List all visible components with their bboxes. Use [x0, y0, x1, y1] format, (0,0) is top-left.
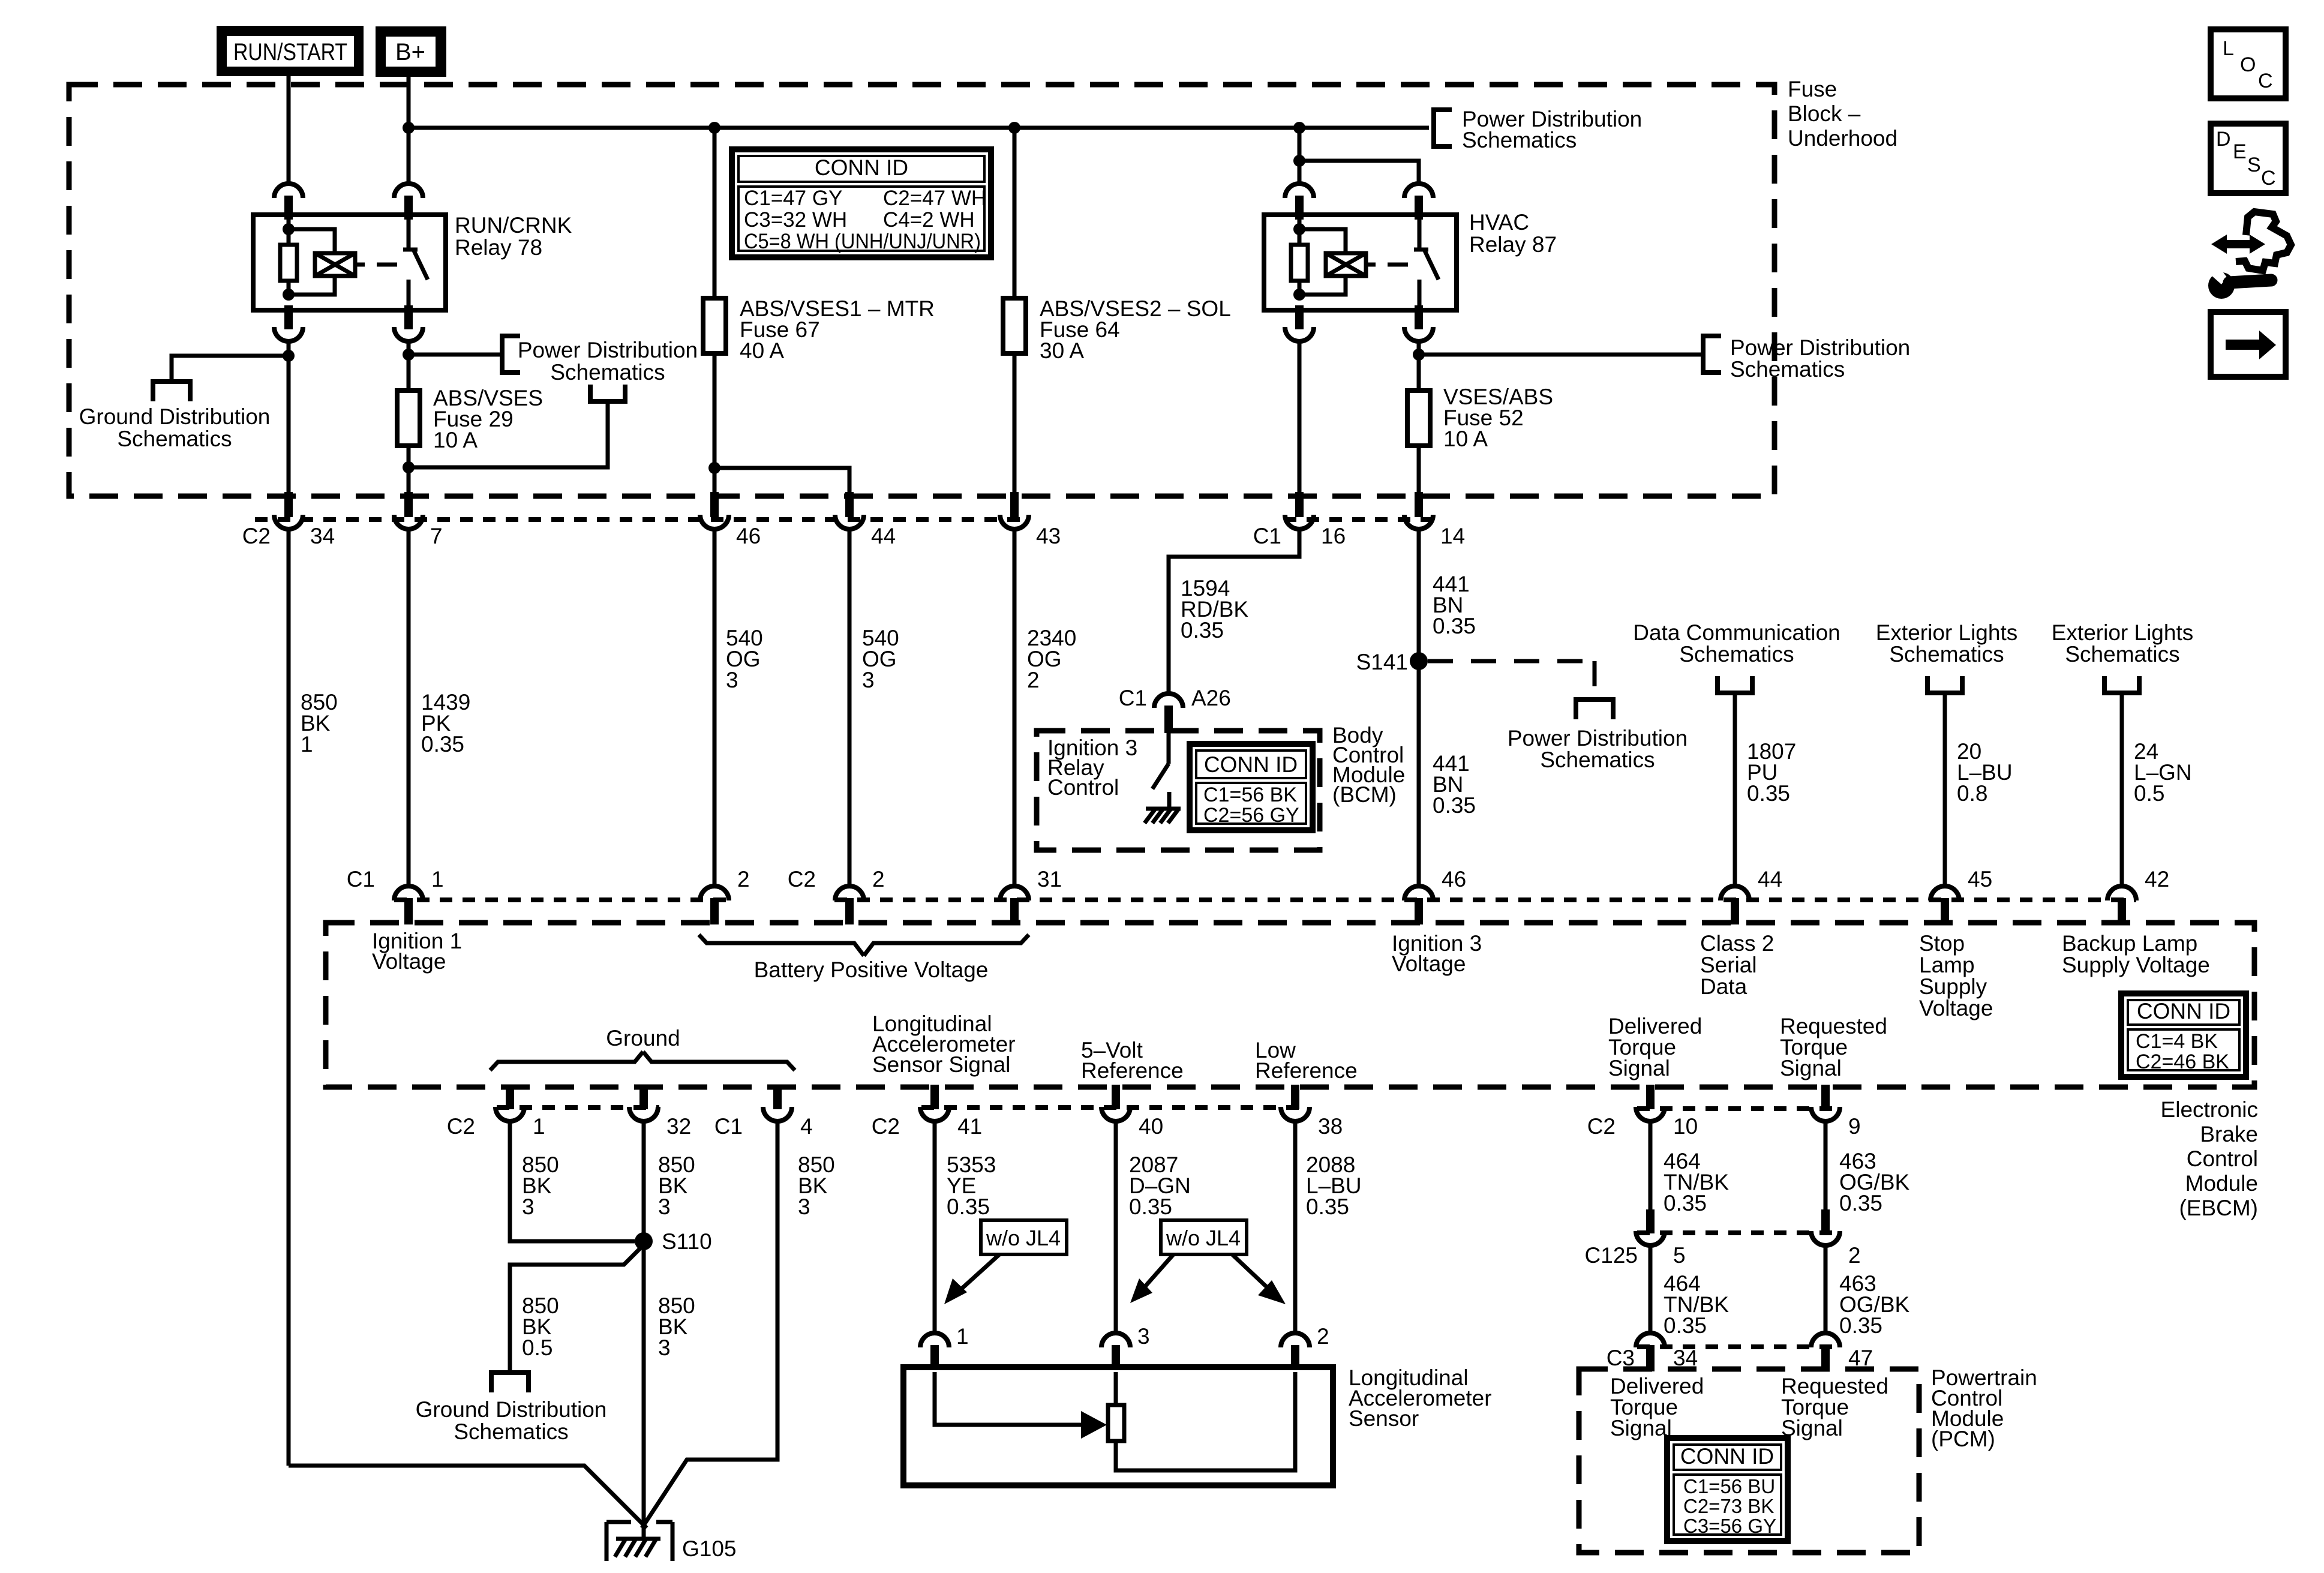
connector pin 16 fuse block — [1285, 515, 1314, 529]
svg-text:C125: C125 — [1585, 1243, 1638, 1268]
connector pin 1 accelerometer sensor — [920, 1333, 949, 1347]
callout box w/o JL4 right — [1161, 1220, 1247, 1254]
svg-text:Reference: Reference — [1081, 1058, 1184, 1083]
svg-text:Exterior Lights: Exterior Lights — [1876, 620, 2018, 645]
svg-text:HVAC: HVAC — [1469, 210, 1529, 235]
connector pin 38 EBCM bottom — [1281, 1107, 1310, 1121]
svg-text:0.35: 0.35 — [1664, 1191, 1707, 1215]
brace ground — [490, 1052, 643, 1070]
conn id table PCM — [1667, 1438, 1788, 1541]
svg-text:CONN ID: CONN ID — [1204, 752, 1298, 777]
connector row fuse block C1 dotted line — [1284, 517, 1434, 522]
svg-text:0.35: 0.35 — [1839, 1313, 1882, 1338]
svg-text:3: 3 — [862, 668, 875, 692]
arrow w/o JL4 right-left — [1141, 1254, 1173, 1291]
svg-text:0.35: 0.35 — [947, 1194, 990, 1219]
svg-text:C2=56 GY: C2=56 GY — [1203, 804, 1299, 827]
relay K78 RUN/CRNK coil circuit — [287, 215, 291, 295]
svg-text:16: 16 — [1321, 524, 1346, 548]
svg-text:Schematics: Schematics — [117, 427, 232, 451]
svg-text:Schematics: Schematics — [1679, 642, 1794, 667]
connector row EBCM bottom ground dotted — [497, 1105, 659, 1110]
svg-text:0.35: 0.35 — [1129, 1194, 1172, 1219]
svg-text:L: L — [2223, 37, 2234, 60]
svg-text:C: C — [2261, 167, 2276, 190]
svg-text:Data Communication: Data Communication — [1633, 620, 1840, 645]
connector C1 A26 BCM — [1154, 694, 1183, 708]
connector pin 46 EBCM top — [1404, 886, 1433, 900]
BCM relay driver switch — [1167, 733, 1171, 764]
svg-text:Signal: Signal — [1608, 1056, 1670, 1080]
svg-text:Schematics: Schematics — [1889, 642, 2004, 667]
icon hand with double arrow and wrench — [2236, 212, 2291, 271]
ground G105 — [606, 1520, 631, 1524]
relay K87 HVAC switch — [1418, 215, 1422, 250]
svg-text:Lamp: Lamp — [1919, 953, 1975, 977]
svg-text:10 A: 10 A — [433, 428, 478, 452]
svg-text:C2: C2 — [788, 867, 816, 891]
svg-text:4: 4 — [800, 1114, 813, 1139]
conn id table fuse block underhood — [732, 149, 991, 257]
wire 463 OG/BK upper — [1824, 1123, 1828, 1231]
relay K87 HVAC solenoid loop wire — [1299, 229, 1346, 253]
svg-text:7: 7 — [430, 524, 443, 548]
wire branch to power distribution reference right — [1419, 353, 1703, 357]
wire RUN/START to relay 78 coil — [287, 76, 291, 184]
reference bracket power distribution top — [1434, 110, 1452, 146]
svg-text:Power Distribution: Power Distribution — [1730, 335, 1910, 360]
svg-text:46: 46 — [736, 524, 761, 548]
svg-text:0.35: 0.35 — [1747, 781, 1790, 806]
svg-text:(EBCM): (EBCM) — [2179, 1196, 2258, 1220]
svg-text:Relay 78: Relay 78 — [455, 235, 542, 260]
reference bracket power distribution under text — [590, 385, 625, 401]
node fuse 64 feed — [1008, 122, 1020, 134]
svg-text:Power Distribution: Power Distribution — [1508, 726, 1688, 751]
svg-text:41: 41 — [957, 1114, 982, 1139]
svg-text:0.5: 0.5 — [2134, 781, 2164, 806]
connector pin 45 EBCM top — [1930, 886, 1959, 900]
connector pin 41 EBCM bottom — [920, 1107, 949, 1121]
wire fuse 67 feed — [713, 128, 717, 493]
wire B+ distribution bus — [409, 126, 1429, 130]
BCM dashed box — [1037, 731, 1320, 850]
svg-text:A26: A26 — [1191, 686, 1231, 710]
wire 2088 L-BU — [1293, 1121, 1298, 1333]
svg-text:0.35: 0.35 — [1433, 614, 1476, 638]
wire 850 BK 0.5 to ground distribution ref — [510, 1245, 644, 1373]
BCM internal ground — [1167, 792, 1172, 809]
svg-text:0.35: 0.35 — [1433, 793, 1476, 818]
svg-text:42: 42 — [2145, 867, 2169, 891]
svg-text:2: 2 — [1027, 668, 1040, 692]
icon LOC box — [2211, 29, 2286, 98]
svg-text:Underhood: Underhood — [1788, 126, 1897, 151]
wire branch fuse29 to power distribution down-ref — [409, 403, 608, 467]
svg-text:Reference: Reference — [1255, 1058, 1358, 1083]
svg-text:CONN ID: CONN ID — [815, 155, 908, 180]
connector relay 78 switch bottom — [394, 327, 423, 341]
svg-text:3: 3 — [658, 1194, 671, 1219]
svg-text:3: 3 — [798, 1194, 810, 1219]
relay K78 RUN/CRNK coil resistor — [280, 245, 297, 281]
connector row EBCM bottom sensor dotted — [921, 1105, 1308, 1110]
wire HVAC relay coil feed — [1298, 128, 1302, 184]
connector pin 34 fuse block — [274, 515, 303, 529]
svg-text:C1: C1 — [1253, 524, 1281, 548]
svg-text:Schematics: Schematics — [2065, 642, 2179, 667]
wire 850 BK 1 long run — [287, 529, 291, 1466]
fuse F29 ABS/VSES 10A — [397, 391, 420, 446]
svg-text:43: 43 — [1036, 524, 1061, 548]
svg-text:Signal: Signal — [1610, 1416, 1672, 1440]
fuse F64 ABS/VSES2-SOL 30A — [1003, 298, 1026, 353]
svg-text:0.5: 0.5 — [522, 1335, 553, 1360]
reference bracket ground distribution — [153, 382, 190, 401]
relay K78 RUN/CRNK solenoid X box — [315, 253, 355, 276]
wire 850 BK 3 pin32 to G105 — [642, 1121, 646, 1539]
conn id table EBCM — [2121, 993, 2246, 1077]
svg-text:3: 3 — [726, 668, 738, 692]
relay K78 RUN/CRNK switch — [407, 215, 411, 250]
connector pin 34 PCM — [1636, 1333, 1665, 1347]
svg-text:Sensor Signal: Sensor Signal — [872, 1052, 1010, 1077]
svg-text:Fuse: Fuse — [1788, 77, 1837, 101]
svg-text:0.35: 0.35 — [1306, 1194, 1349, 1219]
connector row EBCM top C2 dotted line — [834, 897, 2136, 902]
svg-text:10 A: 10 A — [1443, 427, 1488, 451]
svg-text:RUN/CRNK: RUN/CRNK — [455, 213, 572, 238]
svg-text:Control: Control — [1047, 775, 1119, 800]
svg-text:Power Distribution: Power Distribution — [518, 338, 698, 362]
svg-text:E: E — [2233, 140, 2247, 163]
wire 850 BK 3 pin1 — [510, 1121, 635, 1241]
svg-text:C1=4 BK: C1=4 BK — [2136, 1030, 2218, 1053]
svg-text:Supply: Supply — [1919, 974, 1987, 999]
node fuse 67 feed — [708, 122, 720, 134]
connector pin 14 fuse block — [1404, 515, 1433, 529]
svg-text:w/o JL4: w/o JL4 — [1166, 1226, 1241, 1250]
connector pin 9 EBCM bottom — [1811, 1107, 1840, 1121]
wire 463 OG/BK lower — [1824, 1245, 1828, 1333]
svg-text:Schematics: Schematics — [454, 1419, 568, 1444]
connector pin 3 accelerometer sensor — [1101, 1333, 1130, 1347]
connector row EBCM bottom torque dotted — [1637, 1106, 1839, 1111]
wire B+ to relay 78 switch — [407, 76, 411, 184]
svg-text:Relay 87: Relay 87 — [1469, 232, 1557, 257]
wire branch to ground distribution reference — [172, 356, 289, 382]
svg-text:Ground Distribution: Ground Distribution — [79, 404, 271, 429]
svg-text:9: 9 — [1848, 1114, 1861, 1139]
wire 464 TN/BK upper — [1649, 1123, 1653, 1231]
accelerometer sensor box — [903, 1367, 1333, 1485]
connector pin 42 EBCM top — [2107, 886, 2136, 900]
svg-text:1: 1 — [956, 1324, 969, 1349]
svg-text:Voltage: Voltage — [1919, 996, 1993, 1020]
svg-text:40 A: 40 A — [740, 338, 784, 363]
connector pin 40 EBCM bottom — [1101, 1107, 1130, 1121]
svg-text:Serial: Serial — [1700, 953, 1757, 977]
power feed box B+ — [376, 27, 446, 76]
wire relay87 coil return to pin 16 — [1298, 341, 1302, 493]
relay K78 RUN/CRNK actuation dashed link — [377, 263, 397, 267]
connector relay 87 coil bottom — [1285, 327, 1314, 341]
svg-text:Signal: Signal — [1780, 1056, 1842, 1080]
svg-text:30 A: 30 A — [1040, 338, 1084, 363]
splice S110 — [635, 1232, 653, 1250]
wire 540 OG 3 first — [713, 529, 717, 887]
icon DESC box — [2211, 124, 2286, 193]
wire relay78 switch output — [407, 341, 411, 493]
svg-text:10: 10 — [1673, 1114, 1698, 1139]
connector relay 78 coil bottom — [274, 327, 303, 341]
svg-text:Data: Data — [1700, 974, 1747, 999]
sensor internal reference wires — [1114, 1372, 1118, 1405]
fuse F52 VSES/ABS 10A — [1407, 391, 1430, 446]
svg-text:Battery Positive Voltage: Battery Positive Voltage — [754, 957, 989, 982]
node below fuse 67 — [708, 462, 720, 474]
svg-text:(PCM): (PCM) — [1931, 1427, 1995, 1451]
PCM dashed box — [1579, 1369, 1919, 1553]
svg-text:C2=47 WH: C2=47 WH — [883, 187, 986, 210]
svg-text:C1=56 BK: C1=56 BK — [1203, 784, 1297, 806]
svg-text:44: 44 — [871, 524, 896, 548]
wire relay78 coil return 850 BK — [287, 341, 291, 493]
svg-text:0.35: 0.35 — [1664, 1313, 1707, 1338]
svg-text:1: 1 — [301, 732, 313, 757]
relay K78 RUN/CRNK box — [253, 215, 446, 310]
svg-text:0.8: 0.8 — [1957, 781, 1987, 806]
svg-text:S110: S110 — [662, 1229, 712, 1254]
wire 441 BN from pin 14 — [1417, 529, 1421, 887]
wire branch to pin 44 — [714, 468, 849, 493]
svg-text:w/o JL4: w/o JL4 — [986, 1226, 1061, 1250]
wire 24 L-GN — [2120, 694, 2124, 887]
svg-text:0.35: 0.35 — [1181, 618, 1224, 643]
wire 2340 OG 2 — [1013, 529, 1017, 887]
relay K87 HVAC coil resistor — [1291, 245, 1308, 281]
svg-text:Ground: Ground — [606, 1026, 680, 1050]
wire 2087 D-GN — [1114, 1121, 1118, 1333]
dashed wire S141 to power distribution — [1428, 659, 1595, 664]
connector relay 87 switch top — [1404, 184, 1433, 198]
svg-text:Module: Module — [2185, 1171, 2258, 1196]
relay K87 HVAC actuation dashed link — [1388, 263, 1408, 267]
svg-text:RUN/START: RUN/START — [233, 39, 347, 65]
wire 20 L-BU — [1943, 694, 1947, 887]
svg-text:Schematics: Schematics — [1462, 128, 1577, 152]
icon arrow box — [2211, 312, 2286, 377]
power feed box RUN/START — [217, 26, 363, 76]
svg-text:32: 32 — [666, 1114, 691, 1139]
connector relay 87 coil top — [1285, 184, 1314, 198]
connector pin 5 C125 — [1636, 1231, 1665, 1245]
svg-text:Class 2: Class 2 — [1700, 931, 1774, 956]
svg-text:Control: Control — [2187, 1146, 2258, 1171]
connector pin 7 fuse block — [394, 515, 423, 529]
svg-text:C2: C2 — [242, 524, 271, 548]
svg-text:Exterior Lights: Exterior Lights — [2052, 620, 2194, 645]
svg-text:Sensor: Sensor — [1349, 1406, 1419, 1431]
svg-text:Block –: Block – — [1788, 101, 1861, 126]
svg-text:C2: C2 — [447, 1114, 475, 1139]
svg-text:C1=56 BU: C1=56 BU — [1683, 1475, 1775, 1497]
svg-text:C1: C1 — [1119, 686, 1147, 710]
node below fuse 29 — [403, 461, 415, 473]
wire relay87 switch output — [1417, 341, 1421, 493]
node HVAC relay feed — [1293, 122, 1305, 134]
wire HVAC relay switch feed — [1299, 161, 1419, 184]
relay K87 HVAC box — [1264, 215, 1457, 310]
connector pin 2 EBCM top — [835, 886, 864, 900]
svg-text:46: 46 — [1442, 867, 1466, 891]
callout box w/o JL4 left — [981, 1220, 1067, 1254]
svg-text:S141: S141 — [1356, 650, 1408, 674]
reference bracket power distribution S141 — [1576, 700, 1613, 719]
reference bracket power distribution fuse52 — [1703, 336, 1721, 373]
svg-text:C2: C2 — [1587, 1114, 1616, 1139]
wire branch to power distribution reference — [409, 353, 502, 357]
sensor potentiometer — [1108, 1405, 1124, 1441]
connector pin 47 PCM — [1811, 1333, 1840, 1347]
wire 464 TN/BK lower — [1649, 1245, 1653, 1333]
svg-text:Stop: Stop — [1919, 931, 1965, 956]
svg-text:C3=32 WH: C3=32 WH — [744, 208, 847, 232]
connector pin 10 EBCM bottom — [1636, 1107, 1665, 1121]
svg-text:C4=2 WH: C4=2 WH — [883, 208, 975, 232]
connector pin 32 EBCM bottom — [629, 1107, 658, 1121]
svg-text:Schematics: Schematics — [550, 360, 665, 385]
svg-text:1: 1 — [431, 867, 444, 891]
arrow w/o JL4 right-right — [1232, 1254, 1274, 1293]
conn id table BCM — [1190, 744, 1313, 830]
connector row EBCM top C1 dotted line — [394, 897, 730, 902]
svg-text:1: 1 — [533, 1114, 545, 1139]
relay K78 RUN/CRNK solenoid loop wire — [289, 229, 335, 253]
svg-text:C: C — [2258, 70, 2273, 92]
svg-text:Voltage: Voltage — [372, 949, 446, 974]
connector row C3 dotted — [1637, 1344, 1839, 1349]
svg-text:O: O — [2240, 53, 2256, 76]
reference bracket ground distribution bottom — [491, 1373, 529, 1392]
sensor internal signal wire with arrow — [935, 1372, 1085, 1425]
svg-text:Voltage: Voltage — [1392, 951, 1466, 976]
svg-text:C1: C1 — [347, 867, 375, 891]
connector pin 46 fuse block — [700, 515, 729, 529]
wire 850 BK 3 pin4 — [642, 1121, 777, 1528]
svg-text:0.35: 0.35 — [1839, 1191, 1882, 1215]
svg-text:C2: C2 — [872, 1114, 900, 1139]
fuse block underhood dashed box — [69, 85, 1774, 496]
svg-text:5: 5 — [1673, 1243, 1686, 1268]
brace battery positive voltage — [699, 935, 864, 956]
connector pin 1 EBCM bottom — [496, 1107, 524, 1121]
svg-text:Backup Lamp: Backup Lamp — [2062, 931, 2197, 956]
svg-text:38: 38 — [1318, 1114, 1343, 1139]
svg-text:Schematics: Schematics — [1730, 357, 1845, 382]
svg-text:3: 3 — [658, 1335, 671, 1360]
relay K87 HVAC coil circuit — [1298, 215, 1302, 295]
svg-text:D: D — [2216, 128, 2231, 151]
connector pin 1 EBCM top — [394, 886, 423, 900]
svg-text:Brake: Brake — [2200, 1122, 2258, 1146]
svg-text:C2=73 BK: C2=73 BK — [1683, 1495, 1774, 1517]
svg-text:3: 3 — [522, 1194, 535, 1219]
svg-text:3: 3 — [1137, 1324, 1150, 1349]
relay K87 HVAC solenoid X box — [1326, 253, 1366, 276]
reference bracket exterior lights 1 — [1927, 676, 1962, 693]
svg-text:CONN ID: CONN ID — [2137, 999, 2230, 1023]
reference bracket exterior lights 2 — [2104, 676, 2139, 693]
fuse F67 ABS/VSES1-MTR 40A — [703, 298, 726, 353]
svg-text:C3=56 GY: C3=56 GY — [1683, 1515, 1776, 1537]
svg-text:2: 2 — [872, 867, 885, 891]
svg-text:(BCM): (BCM) — [1332, 782, 1397, 807]
reference bracket data communication — [1718, 676, 1752, 693]
connector pin 2 EBCM top — [700, 886, 729, 900]
reference bracket power distribution fuse29 — [502, 336, 520, 373]
wire fuse 64 feed — [1013, 128, 1017, 493]
svg-text:S: S — [2247, 154, 2261, 176]
svg-text:CONN ID: CONN ID — [1680, 1444, 1774, 1469]
wire 1439 PK — [407, 529, 411, 887]
svg-text:44: 44 — [1758, 867, 1782, 891]
connector pin 31 EBCM top — [1000, 886, 1029, 900]
svg-text:2: 2 — [737, 867, 750, 891]
connector pin 2 accelerometer sensor — [1281, 1333, 1310, 1347]
EBCM dashed box — [326, 923, 2254, 1087]
svg-text:B+: B+ — [395, 39, 425, 65]
svg-text:Supply Voltage: Supply Voltage — [2062, 953, 2210, 977]
wire 540 OG 3 second — [848, 529, 852, 887]
svg-text:C1=47 GY: C1=47 GY — [744, 187, 842, 210]
connector relay 78 coil top — [274, 184, 303, 198]
connector pin 44 fuse block — [835, 515, 864, 529]
svg-text:Ground Distribution: Ground Distribution — [416, 1397, 607, 1422]
connector pin 4 EBCM bottom — [763, 1107, 792, 1121]
svg-text:40: 40 — [1139, 1114, 1163, 1139]
wire 1807 PU — [1733, 694, 1737, 887]
connector pin 43 fuse block — [1000, 515, 1029, 529]
connector relay 78 switch top — [394, 184, 423, 198]
connector row fuse block C2 dotted line — [255, 517, 1030, 522]
connector pin 44 EBCM top — [1721, 886, 1749, 900]
svg-text:14: 14 — [1440, 524, 1465, 548]
arrow w/o JL4 left — [955, 1254, 999, 1295]
svg-text:Schematics: Schematics — [1540, 748, 1655, 772]
svg-text:2: 2 — [1317, 1324, 1329, 1349]
connector pin 2 C125 — [1811, 1231, 1840, 1245]
wire 850 BK 1 bottom run to G105 — [289, 1466, 647, 1528]
svg-text:G105: G105 — [682, 1536, 737, 1561]
wire 1594 RD/BK from pin 16 to BCM — [1169, 529, 1299, 694]
svg-text:34: 34 — [310, 524, 335, 548]
svg-text:31: 31 — [1037, 867, 1062, 891]
splice S141 — [1410, 652, 1428, 670]
svg-text:Electronic: Electronic — [2161, 1097, 2258, 1122]
svg-text:C1: C1 — [714, 1114, 743, 1139]
svg-text:45: 45 — [1968, 867, 1992, 891]
svg-text:C2=46 BK: C2=46 BK — [2136, 1050, 2229, 1073]
connector relay 87 switch bottom — [1404, 327, 1433, 341]
svg-text:0.35: 0.35 — [421, 732, 464, 757]
svg-text:2: 2 — [1848, 1243, 1861, 1268]
svg-text:C5=8 WH (UNH/UNJ/UNR): C5=8 WH (UNH/UNJ/UNR) — [744, 230, 981, 253]
wire 5353 YE — [933, 1121, 937, 1333]
connector row C125 dotted — [1637, 1230, 1839, 1235]
